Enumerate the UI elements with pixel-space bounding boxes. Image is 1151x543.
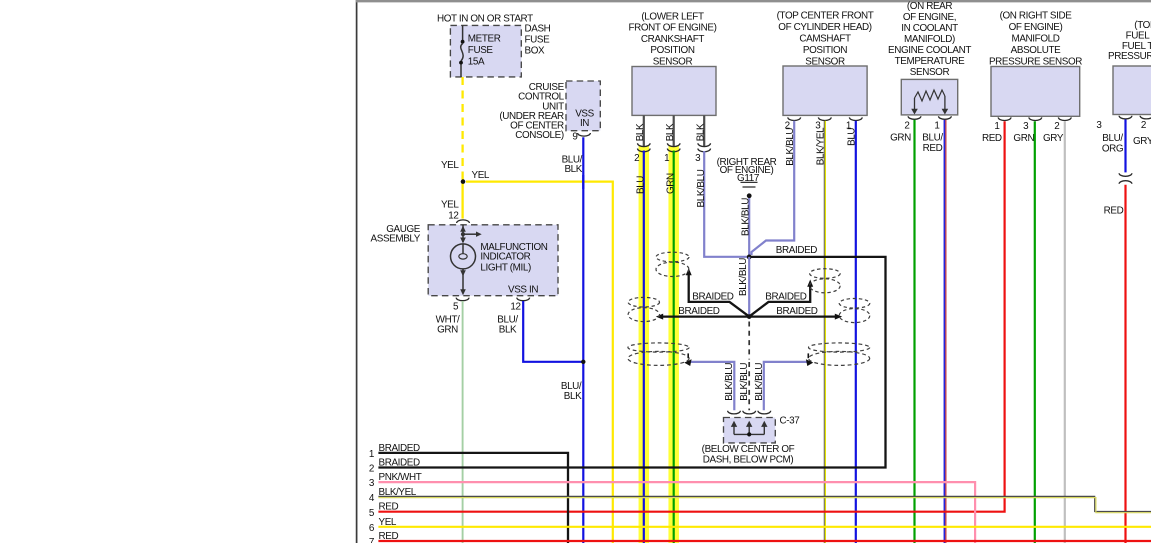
svg-text:ORG: ORG: [1102, 144, 1123, 155]
svg-text:2: 2: [369, 464, 374, 475]
crank connector arcs (double): [638, 143, 711, 152]
svg-text:OF ENGINE): OF ENGINE): [1009, 22, 1063, 33]
wire YEL dashed from fuse: [461, 77, 463, 180]
label CRANKSHAFT POSITION SENSOR: [628, 12, 716, 68]
svg-text:BLK/BLU: BLK/BLU: [738, 258, 749, 296]
MAP connector arcs: [998, 117, 1071, 120]
svg-text:1: 1: [934, 121, 940, 132]
svg-text:BLK: BLK: [635, 123, 646, 141]
fuel tank pressure sensor box (cut at edge): [1113, 66, 1151, 115]
svg-text:(ON RIGHT SIDE: (ON RIGHT SIDE: [1000, 11, 1073, 22]
wire 6 YEL horizontal: [378, 526, 1151, 528]
svg-text:2: 2: [904, 121, 909, 132]
svg-text:(LOWER LEFT: (LOWER LEFT: [641, 12, 704, 23]
wire BLU/BLK from pin 12: [523, 301, 583, 362]
svg-text:CAMSHAFT: CAMSHAFT: [799, 34, 851, 45]
svg-text:ENGINE COOLANT: ENGINE COOLANT: [888, 45, 971, 56]
wire RED (MAP pin1) down then left as wire5: [378, 121, 1004, 511]
svg-text:LIGHT (MIL): LIGHT (MIL): [480, 262, 531, 273]
braided drain left to BLU shield with arrow: [662, 315, 750, 317]
svg-text:(TOP CENTER FRONT: (TOP CENTER FRONT: [777, 11, 874, 22]
svg-text:(BELOW CENTER OF: (BELOW CENTER OF: [702, 444, 795, 455]
wire RED (fuel) down: [1124, 185, 1126, 543]
svg-text:BLK: BLK: [695, 123, 706, 141]
svg-text:BOX: BOX: [525, 46, 546, 57]
svg-text:5: 5: [453, 302, 459, 313]
wire BLU/BLK overlay at yellow crossing: [582, 175, 584, 189]
svg-text:SENSOR: SENSOR: [910, 67, 950, 78]
svg-text:OF ENGINE,: OF ENGINE,: [903, 12, 956, 23]
wire BLU (fuel pin3): [1124, 120, 1126, 173]
diagram left border: [356, 0, 358, 543]
svg-text:BLU: BLU: [635, 176, 646, 194]
wire dashed shield continuation: [748, 322, 750, 360]
svg-text:BLK/BLU: BLK/BLU: [724, 363, 735, 401]
wire 1 BRAIDED horizontal then down: [378, 453, 568, 543]
svg-text:SENSOR: SENSOR: [653, 56, 693, 67]
svg-text:1: 1: [369, 449, 375, 460]
svg-text:GRY: GRY: [1133, 136, 1151, 147]
svg-text:FUEL TANK): FUEL TANK): [1126, 30, 1151, 41]
svg-text:RED: RED: [923, 143, 943, 154]
svg-text:BLK: BLK: [665, 123, 676, 141]
svg-text:TEMPERATURE: TEMPERATURE: [895, 56, 965, 67]
svg-text:POSITION: POSITION: [650, 45, 694, 56]
braided drain right to BLU shield with arrow: [749, 315, 836, 317]
wire BLK/BLU from G117 down to node: [748, 198, 750, 257]
cruise control VSS IN box (dashed): [566, 81, 600, 131]
fuel sensor connector arcs: [1119, 116, 1132, 119]
svg-text:DASH: DASH: [525, 23, 551, 34]
ground symbol G117: [741, 181, 758, 183]
svg-text:CRANKSHAFT: CRANKSHAFT: [641, 34, 704, 45]
gauge pin 12 arc: [517, 298, 530, 301]
svg-text:(ON REAR: (ON REAR: [907, 1, 952, 12]
svg-text:GRY: GRY: [1043, 133, 1064, 144]
wire BLK/YEL (cam pin3): [823, 121, 825, 543]
svg-text:IN: IN: [580, 118, 589, 129]
svg-text:BLK: BLK: [564, 164, 582, 175]
svg-text:BRAIDED: BRAIDED: [692, 292, 733, 303]
wire GRY (MAP pin2): [1064, 121, 1066, 543]
svg-text:12: 12: [510, 302, 520, 313]
svg-text:CONSOLE): CONSOLE): [515, 130, 564, 141]
svg-text:BLU: BLU: [846, 128, 857, 146]
MIL lamp circle: [451, 244, 476, 269]
ECT resistor symbol: [915, 90, 945, 101]
svg-text:IN COOLANT: IN COOLANT: [901, 23, 958, 34]
svg-text:2: 2: [1054, 121, 1059, 132]
svg-text:BRAIDED: BRAIDED: [678, 306, 719, 317]
svg-text:BRAIDED: BRAIDED: [776, 306, 817, 317]
shield S5 wide left: [628, 343, 689, 366]
node 1 (shield junction upper): [747, 255, 752, 260]
svg-text:METER: METER: [468, 34, 501, 45]
svg-text:GRN: GRN: [1013, 133, 1034, 144]
highlight band on BLU wire: [639, 146, 650, 543]
svg-text:FUSE: FUSE: [525, 34, 551, 45]
engine coolant temperature sensor box: [901, 79, 957, 115]
svg-text:GRN: GRN: [665, 173, 676, 194]
shield S6 wide right: [809, 343, 870, 366]
manifold absolute pressure sensor box: [991, 67, 1080, 117]
svg-text:RED: RED: [982, 133, 1002, 144]
svg-text:BLU/: BLU/: [922, 133, 943, 144]
wire BLK/BLU (crank pin3): [704, 151, 747, 257]
svg-text:3: 3: [1023, 121, 1029, 132]
wire YEL horizontal then down: [466, 182, 613, 543]
svg-text:3: 3: [1096, 120, 1102, 131]
svg-text:HOT IN ON OR START: HOT IN ON OR START: [437, 13, 533, 24]
shield S3 around BLK/YEL wire: [810, 269, 841, 293]
svg-text:ASSEMBLY: ASSEMBLY: [371, 234, 421, 245]
wire GRN (crank pin1): [673, 151, 675, 543]
svg-text:POSITION: POSITION: [803, 45, 847, 56]
svg-text:BLK/BLU: BLK/BLU: [740, 198, 751, 236]
ECT connector arcs: [908, 116, 921, 119]
highlight band on GRN wire: [668, 146, 679, 543]
wire GRN (MAP pin3): [1034, 121, 1036, 543]
wire BRAIDED loop: right, down, left (becomes wire 2): [378, 257, 885, 468]
shield S2 around GRN wire: [656, 252, 689, 276]
svg-text:2: 2: [634, 153, 639, 164]
wire BLK/BLU node1 to node2: [748, 257, 750, 317]
svg-text:OF CYLINDER HEAD): OF CYLINDER HEAD): [778, 22, 871, 33]
dash fuse box (dashed): [450, 25, 521, 77]
svg-text:4: 4: [369, 493, 375, 504]
wire dashed drain middle to C-37: [748, 362, 750, 410]
svg-text:FUSE: FUSE: [468, 45, 494, 56]
wire BLK/BLU shield drain left with arrow, down to C-37: [691, 362, 735, 410]
svg-text:BLK/YEL: BLK/YEL: [815, 127, 826, 165]
wire GRN (ECT pin2): [913, 120, 915, 543]
node junction YEL: [461, 179, 466, 184]
svg-text:INDICATOR: INDICATOR: [480, 252, 530, 263]
svg-text:6: 6: [369, 523, 375, 534]
svg-text:RED: RED: [379, 502, 399, 513]
gauge assembly box (dashed): [428, 225, 558, 296]
junction BLU/BLK: [581, 360, 585, 364]
svg-text:15A: 15A: [468, 57, 485, 68]
diagram top border: [356, 0, 1151, 2]
wire 3 PNK/WHT horizontal then down: [378, 482, 975, 543]
svg-text:12: 12: [448, 211, 458, 222]
crankshaft position sensor box: [632, 67, 716, 116]
svg-text:3: 3: [369, 478, 375, 489]
label MANIFOLD ABSOLUTE PRESSURE SENSOR: [989, 11, 1082, 68]
wire BLU/RED (ECT pin1): [943, 120, 945, 543]
wire WHT/GRN down: [462, 301, 464, 543]
svg-text:YEL: YEL: [441, 160, 459, 171]
svg-text:BRAIDED: BRAIDED: [776, 245, 817, 256]
svg-text:PRESSURE SENSOR: PRESSURE SENSOR: [989, 57, 1082, 68]
wire 7 RED horizontal: [378, 540, 1151, 542]
svg-text:5: 5: [369, 508, 375, 519]
svg-text:RED: RED: [379, 531, 399, 542]
svg-text:2: 2: [1141, 120, 1146, 131]
svg-text:MANIFOLD: MANIFOLD: [1012, 34, 1060, 45]
gauge internal wiring with arrows: [463, 225, 478, 293]
svg-text:BRAIDED: BRAIDED: [765, 292, 806, 303]
cam connector arcs: [788, 117, 862, 120]
svg-text:BLK/YEL: BLK/YEL: [379, 487, 417, 498]
wire BLU (crank pin2): [643, 151, 645, 543]
svg-text:BLK/BLU: BLK/BLU: [696, 169, 707, 207]
svg-text:BLU/: BLU/: [1102, 133, 1123, 144]
svg-text:YEL: YEL: [379, 517, 397, 528]
svg-text:PRESSURE SENSOR: PRESSURE SENSOR: [1108, 51, 1151, 62]
shield S4 around cam BLU wire: [839, 299, 870, 323]
label G117 (RIGHT REAR OF ENGINE): [717, 157, 777, 184]
crank BLK pigtail wires: [644, 115, 704, 146]
svg-text:BLK: BLK: [499, 325, 517, 336]
svg-text:BLK/BLU: BLK/BLU: [754, 363, 765, 401]
wire BLU/BLK from VSS IN down: [582, 137, 584, 543]
svg-text:MANIFOLD): MANIFOLD): [904, 34, 955, 45]
svg-text:BLK/BLU: BLK/BLU: [739, 363, 750, 401]
svg-text:VSS IN: VSS IN: [508, 284, 538, 295]
svg-text:1: 1: [994, 121, 1000, 132]
node 2 (shield junction lower): [747, 314, 752, 319]
label CAMSHAFT POSITION SENSOR: [777, 11, 874, 68]
braided drain from GRN shield (up-left): [689, 272, 750, 317]
wire BLU (cam pin1): [855, 121, 857, 543]
svg-text:YEL: YEL: [441, 200, 459, 211]
svg-text:DASH, BELOW PCM): DASH, BELOW PCM): [703, 455, 794, 466]
svg-text:7: 7: [369, 537, 374, 543]
fuse METER FUSE 15A symbol: [461, 25, 463, 77]
svg-text:BLK/BLU: BLK/BLU: [785, 128, 796, 166]
wire 4 BLK/YEL horizontal with jog: [378, 496, 1151, 511]
svg-text:BRAIDED: BRAIDED: [379, 443, 420, 454]
svg-text:BRAIDED: BRAIDED: [379, 458, 420, 469]
svg-text:ABSOLUTE: ABSOLUTE: [1011, 45, 1061, 56]
wire YEL solid down to gauge: [461, 182, 463, 219]
svg-text:BLK: BLK: [564, 391, 582, 402]
svg-text:1: 1: [664, 153, 670, 164]
C-37 internal bus and arrows: [734, 433, 764, 435]
wire BLK/BLU (cam pin2) down then left to node: [752, 121, 795, 255]
svg-text:SENSOR: SENSOR: [805, 57, 845, 68]
svg-text:C-37: C-37: [780, 416, 800, 427]
camshaft position sensor box: [783, 66, 867, 115]
gauge top entry connector arc: [457, 220, 470, 223]
C-37 connector box (dashed): [724, 418, 776, 443]
wire BLK/BLU shield drain right with arrow, down to C-37: [764, 362, 808, 410]
svg-text:FRONT OF ENGINE): FRONT OF ENGINE): [628, 23, 716, 34]
braided drain from BLK/YEL shield (up-right): [749, 284, 810, 317]
svg-text:3: 3: [695, 153, 701, 164]
gauge pin 5 arc: [456, 298, 469, 301]
C-37 connector arcs: [728, 411, 771, 414]
label ENGINE COOLANT TEMPERATURE SENSOR: [888, 1, 971, 78]
svg-text:GRN: GRN: [890, 133, 911, 144]
inline connector on fuel wire: [1119, 173, 1132, 176]
svg-text:RED: RED: [1104, 206, 1124, 217]
svg-text:PNK/WHT: PNK/WHT: [379, 472, 422, 483]
svg-text:GRN: GRN: [437, 325, 458, 336]
shield S1 around BLU wire: [628, 297, 659, 321]
svg-text:YEL: YEL: [472, 170, 490, 181]
